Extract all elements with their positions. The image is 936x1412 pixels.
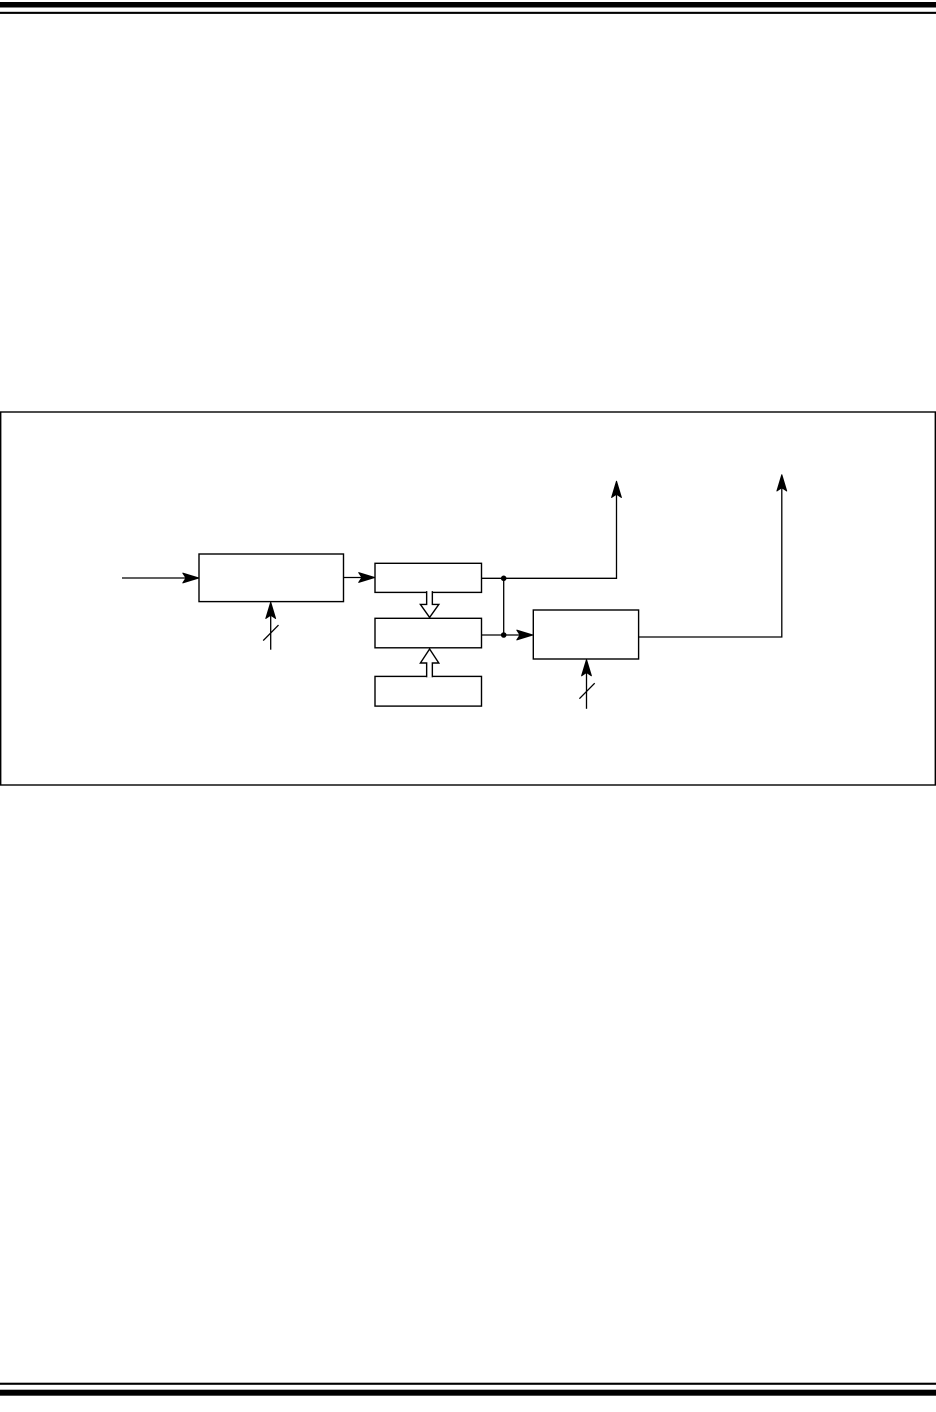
figure frame bbox=[1, 412, 936, 785]
bus width slash (right) bbox=[579, 683, 594, 699]
wire box4 to up-arrow corner (right output) bbox=[639, 488, 782, 637]
node B junction dot bbox=[501, 632, 507, 638]
footer thick rule bbox=[0, 1390, 936, 1396]
open arrow box2 to box3 bbox=[420, 591, 438, 617]
bus arrow into box4 bottom (head) bbox=[582, 660, 592, 676]
block box1 (left large block) bbox=[199, 554, 344, 602]
arrowhead up (left output) bbox=[612, 481, 622, 497]
wire node A to node B bbox=[503, 578, 505, 635]
wire box3 to node B bbox=[482, 634, 504, 636]
bus arrow into box1 bottom (shaft) bbox=[270, 616, 272, 650]
bus arrow into box4 bottom (shaft) bbox=[586, 673, 588, 709]
block box5 (lower middle block) bbox=[375, 676, 482, 706]
header thick rule bbox=[0, 2, 936, 8]
wire input to box1 bbox=[122, 577, 187, 579]
block box4 (right block) bbox=[533, 610, 638, 659]
header thin rule bbox=[0, 12, 936, 14]
bus width slash (left) bbox=[263, 625, 278, 641]
bus arrow into box1 bottom (head) bbox=[266, 602, 276, 618]
block box3 (middle block) bbox=[375, 618, 482, 648]
footer thin rule bbox=[0, 1383, 936, 1385]
wire node B to box4 bbox=[504, 634, 521, 636]
block box2 (upper middle block) bbox=[375, 563, 482, 592]
wire node A to up-arrow corner bbox=[504, 495, 617, 579]
node A junction dot bbox=[501, 576, 507, 582]
arrowhead into box2 bbox=[359, 573, 375, 583]
open arrow box5 to box3 bbox=[420, 649, 438, 677]
arrowhead into box4 bbox=[517, 630, 533, 640]
arrowhead up (right output) bbox=[777, 475, 787, 491]
arrowhead into box1 bbox=[183, 573, 199, 583]
wire box1 to box2 bbox=[344, 577, 363, 579]
wire box2 to node A bbox=[482, 577, 504, 579]
